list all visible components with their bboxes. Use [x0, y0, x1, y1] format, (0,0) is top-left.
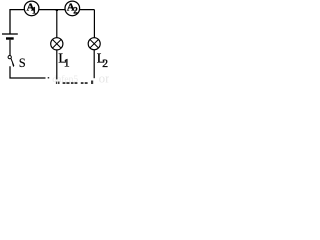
svg-text:1: 1	[64, 56, 70, 70]
wire battery to switch	[9, 40, 11, 56]
wire L1 branch lower	[56, 50, 58, 79]
svg-text:2: 2	[102, 56, 108, 70]
ammeter A2	[65, 1, 80, 16]
lamp L2	[88, 38, 100, 50]
wire L1 branch upper	[56, 10, 58, 38]
switch S lower contact tick	[13, 63, 14, 66]
svg-text:2: 2	[73, 5, 78, 15]
svg-text:S: S	[19, 56, 26, 70]
wire L2 branch lower	[93, 50, 95, 78]
junction dot	[56, 9, 58, 11]
battery cell short thick plate	[6, 37, 14, 39]
battery cell long plate	[2, 33, 18, 35]
wire switch to bottom-left corner and bottom rail (solid part)	[10, 66, 46, 78]
wire top rail	[10, 10, 94, 34]
svg-text:om: om	[99, 71, 109, 84]
bottom rail dash	[48, 77, 50, 79]
svg-text:1: 1	[32, 5, 37, 15]
switch S pivot	[8, 55, 11, 58]
ammeter A1	[24, 1, 39, 16]
wire right branch upper	[93, 10, 95, 38]
lamp L1	[51, 38, 63, 50]
cut-off dark text tops at bottom edge	[56, 81, 93, 85]
switch S blade (open)	[11, 59, 14, 66]
